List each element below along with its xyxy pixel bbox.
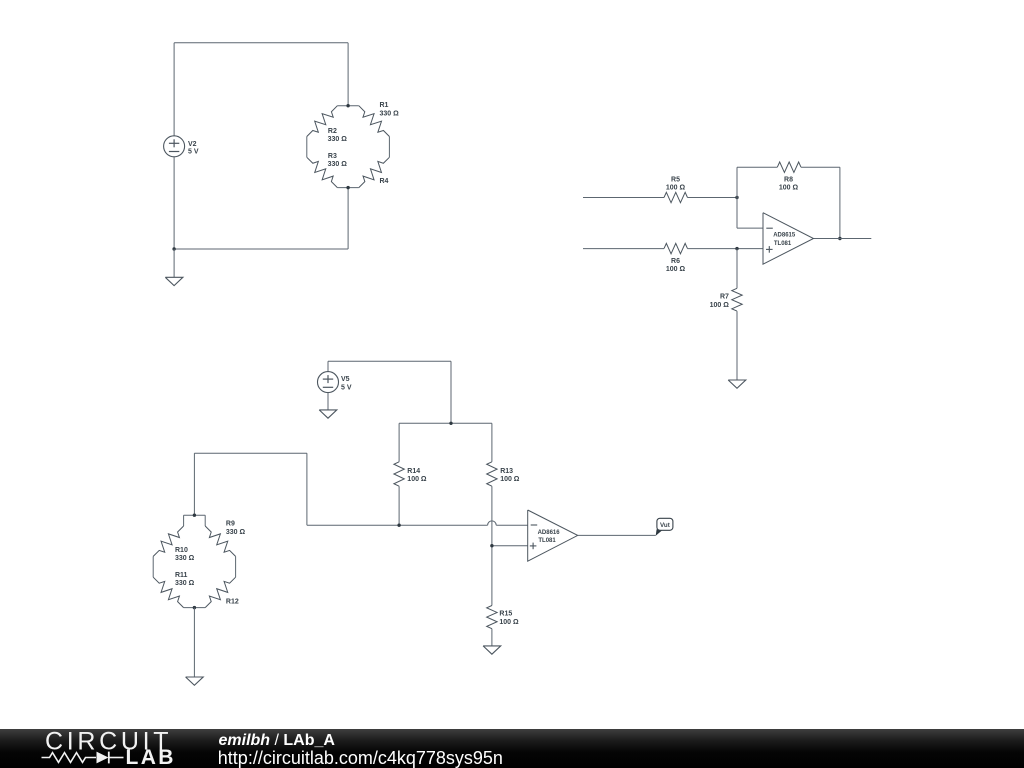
node R5/R8 junction: [735, 196, 738, 199]
node bridge2 top junction: [193, 514, 196, 517]
resistor R9: [205, 526, 235, 556]
U2 part label: [538, 530, 561, 544]
svg-text:R7: R7: [720, 294, 729, 301]
svg-text:R10: R10: [175, 547, 188, 554]
node ladder top junction: [449, 422, 452, 425]
R4 value label: [380, 178, 389, 185]
R3 value label: [328, 153, 348, 168]
resistor R14: [394, 462, 404, 486]
wire R7 top lead: [736, 249, 738, 289]
wire top of V2 loop: [174, 42, 348, 44]
wire bridge2 top horizontal: [194, 452, 307, 454]
voltage source V5: [318, 372, 339, 393]
resistor R4: [359, 157, 390, 187]
wire left lower (V2 bottom lead): [173, 157, 175, 249]
wire bridge2 top-right drop: [204, 515, 206, 526]
R15 value label: [499, 611, 519, 626]
wire down to inverting wire: [306, 453, 308, 525]
R10 value label: [175, 547, 195, 562]
ground under R7: [728, 380, 746, 388]
wire inverting node vertical: [736, 167, 738, 228]
svg-text:5 V: 5 V: [341, 384, 352, 391]
op-amp U1 AD8615/TL081: [763, 213, 814, 265]
svg-text:R14: R14: [407, 468, 420, 475]
resistor R6: [664, 243, 688, 253]
U1 part label: [773, 233, 796, 247]
wire bridge2 bottom stub: [184, 607, 206, 609]
node R6/R7 junction: [735, 247, 738, 250]
ground under V2: [165, 277, 183, 285]
svg-text:R6: R6: [671, 258, 680, 265]
svg-text:100 Ω: 100 Ω: [779, 185, 799, 192]
svg-text:R13: R13: [500, 468, 513, 475]
svg-text:100 Ω: 100 Ω: [500, 476, 520, 483]
wire R15 bottom lead: [491, 629, 493, 646]
R11 value label: [175, 572, 195, 587]
footer bar: [0, 729, 1024, 768]
wire V5 top lead: [327, 361, 329, 371]
wire output U2: [578, 534, 656, 536]
resistor R7: [732, 288, 742, 311]
wire bridge2 top stub: [184, 514, 206, 516]
wire feedback vertical: [839, 167, 841, 238]
wire right lower (from bridge bottom): [347, 188, 349, 249]
wire left upper (V2 top lead): [173, 43, 175, 136]
svg-text:330 Ω: 330 Ω: [328, 161, 348, 168]
wire R14 top lead: [398, 423, 400, 462]
R1 value label: [380, 102, 400, 117]
svg-text:5 V: 5 V: [188, 149, 199, 156]
author / title text: [219, 732, 336, 749]
svg-text:R5: R5: [671, 176, 680, 183]
R8 value label: [779, 176, 799, 191]
wire output U1: [814, 238, 872, 240]
R12 value label: [226, 599, 239, 606]
wire bridge2 top vertical: [193, 453, 195, 515]
svg-text:R15: R15: [499, 611, 512, 618]
schematic URL text: [218, 748, 503, 768]
wire inverting input with hop: [307, 521, 528, 525]
CircuitLab logo resistor-diode glyph: [42, 752, 124, 764]
wire bridge1 bottom stub: [337, 187, 358, 189]
svg-text:R12: R12: [226, 599, 239, 606]
wire to inverting input: [737, 227, 763, 229]
svg-text:Vut: Vut: [660, 522, 670, 529]
svg-text:330 Ω: 330 Ω: [175, 555, 195, 562]
R2 value label: [328, 128, 348, 143]
wire bottom of V2 loop: [174, 248, 348, 250]
wire bridge2 top-left drop: [183, 515, 185, 526]
R14 value label: [407, 468, 427, 483]
voltage source V2: [164, 136, 185, 157]
svg-text:V5: V5: [341, 376, 350, 383]
node bridge1 bottom junction: [346, 186, 349, 189]
wire bridge2 left stub: [152, 556, 154, 577]
svg-text:emilbh / LAb_A: emilbh / LAb_A: [219, 732, 336, 749]
wire ground stub under V2: [173, 249, 175, 277]
wire R13 top lead: [491, 423, 493, 462]
wire R8 right lead: [801, 166, 840, 168]
svg-text:LAB: LAB: [126, 746, 176, 768]
resistor R8: [777, 162, 801, 172]
V5 value label: [341, 376, 352, 391]
svg-text:V2: V2: [188, 141, 197, 148]
svg-text:R3: R3: [328, 153, 337, 160]
wire V5 top horizontal: [328, 360, 451, 362]
wire R5 input lead: [583, 197, 664, 199]
R9 value label: [226, 521, 246, 536]
svg-text:100 Ω: 100 Ω: [407, 476, 427, 483]
node output/feedback junction: [838, 237, 841, 240]
svg-text:330 Ω: 330 Ω: [328, 136, 348, 143]
svg-text:AD8615: AD8615: [773, 233, 796, 239]
wire right upper (to bridge top): [347, 43, 349, 106]
wire bridge2 ground lead: [193, 608, 195, 677]
resistor R2: [307, 106, 338, 137]
node R14 junction: [397, 524, 400, 527]
wire R6 to non-inverting input: [688, 248, 764, 250]
svg-text:http://circuitlab.com/c4kq778s: http://circuitlab.com/c4kq778sys95n: [218, 748, 503, 768]
V2 value label: [188, 141, 199, 156]
R5 value label: [666, 176, 686, 191]
resistor R3: [307, 157, 338, 187]
svg-text:R1: R1: [380, 102, 389, 109]
svg-text:330 Ω: 330 Ω: [175, 580, 195, 587]
node bridge1 top junction: [346, 104, 349, 107]
wire R8 left lead: [737, 166, 777, 168]
svg-text:TL081: TL081: [538, 538, 556, 544]
svg-text:100 Ω: 100 Ω: [499, 619, 519, 626]
svg-text:R9: R9: [226, 521, 235, 528]
resistor R1: [359, 106, 390, 137]
svg-text:R8: R8: [784, 176, 793, 183]
svg-text:330 Ω: 330 Ω: [380, 110, 400, 117]
wire non-inverting input: [492, 545, 528, 547]
svg-text:TL081: TL081: [774, 241, 792, 247]
resistor R15: [487, 606, 497, 629]
resistor R13: [487, 462, 497, 486]
ground under R15: [483, 646, 501, 654]
wire bridge2 right stub: [235, 556, 237, 577]
svg-text:AD8616: AD8616: [538, 530, 561, 536]
wire R14 bottom lead: [398, 486, 400, 525]
wire R7 bottom lead: [736, 311, 738, 380]
R13 value label: [500, 468, 520, 483]
wire V5 down to ladder: [450, 361, 452, 423]
wire R6 input lead: [583, 248, 664, 250]
svg-text:330 Ω: 330 Ω: [226, 529, 246, 536]
Vut label: [660, 522, 670, 529]
wire bridge1 top stub: [337, 105, 358, 107]
op-amp U2 AD8616/TL081: [528, 510, 578, 561]
resistor R10: [153, 526, 183, 556]
ground under bridge2: [186, 677, 204, 685]
node V2- junction: [172, 247, 175, 250]
svg-text:100 Ω: 100 Ω: [666, 185, 686, 192]
resistor R12: [205, 577, 235, 607]
wire R13 bottom lead: [491, 486, 493, 605]
wire ladder top: [399, 422, 492, 424]
svg-text:R2: R2: [328, 128, 337, 135]
CircuitLab logo text: [45, 728, 172, 756]
wire R5 to inverting node: [688, 197, 738, 199]
R7 value label: [710, 294, 730, 309]
wire bridge1 left stub: [306, 137, 308, 158]
node R13/R15 junction: [490, 544, 493, 547]
resistor R5: [664, 192, 688, 202]
wire bridge1 right stub: [388, 137, 390, 158]
svg-text:100 Ω: 100 Ω: [666, 266, 686, 273]
svg-text:100 Ω: 100 Ω: [710, 302, 730, 309]
ground under V5: [319, 410, 337, 418]
svg-text:R11: R11: [175, 572, 188, 579]
resistor R11: [153, 577, 183, 607]
R6 value label: [666, 258, 686, 273]
node bridge2 bottom junction: [193, 606, 196, 609]
node Vut flag: [656, 518, 673, 536]
svg-text:R4: R4: [380, 178, 389, 185]
wire V5 ground lead: [327, 393, 329, 410]
CircuitLab logo LAB text: [126, 746, 176, 768]
